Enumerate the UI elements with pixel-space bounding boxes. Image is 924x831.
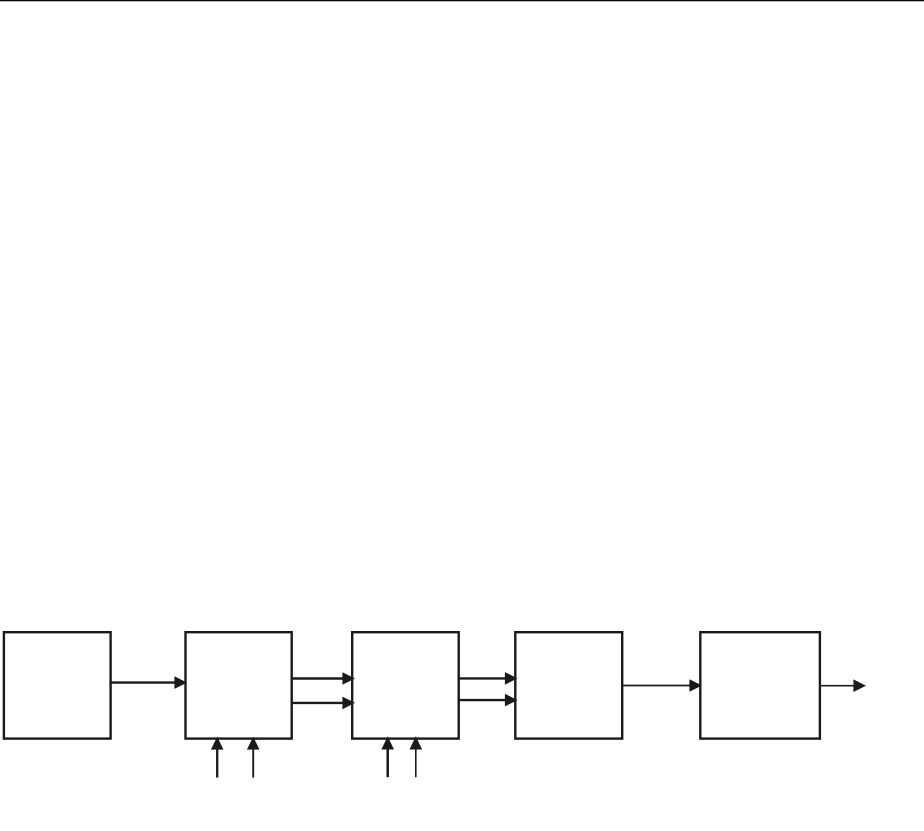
block 3 (352, 632, 459, 738)
block 4 (515, 632, 622, 738)
wire block2 to block3 upper (292, 677, 344, 679)
block 5 (700, 632, 820, 738)
wire block3 to block4 upper (459, 677, 506, 679)
block 1 (4, 632, 111, 738)
output wire from block5 (820, 685, 855, 687)
block 2 (186, 632, 292, 738)
wire block2 to block3 lower (292, 702, 344, 704)
top rule (0, 0, 924, 1)
input arrow 1 into block2 bottom (216, 749, 218, 778)
wire block1 to block2 (111, 681, 176, 683)
input arrow 1 into block3 bottom (386, 749, 389, 778)
input arrow 2 into block3 bottom (415, 749, 417, 778)
input arrow 2 into block2 bottom (252, 749, 254, 778)
wire block4 to block5 (622, 685, 691, 687)
wire block3 to block4 lower (459, 699, 506, 701)
